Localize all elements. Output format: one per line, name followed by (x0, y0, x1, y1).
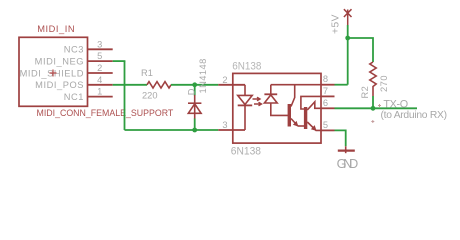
opto pin 8 stub (321, 84, 335, 86)
transistor Q2 collector (307, 102, 321, 110)
svg-text:6N138: 6N138 (232, 61, 261, 73)
svg-text:R2: R2 (360, 86, 370, 99)
wire diode top lead (194, 85, 196, 96)
wire Q1 emitter to Q2 base (298, 125, 304, 127)
light arrow 1 (253, 97, 261, 101)
transistor Q1 collector (291, 85, 295, 107)
svg-text:NC3: NC3 (64, 45, 84, 55)
wire bottom rail to opto pin3 (125, 129, 219, 131)
transistor Q1 base bar (288, 104, 291, 127)
opto LED triangle (238, 95, 253, 104)
wire R1 to opto pin2 (171, 84, 218, 86)
opto LED anode lead (244, 85, 246, 96)
wire MIDI_NEG vertical (124, 61, 126, 130)
svg-text:GND: GND (337, 156, 359, 171)
note origin tick (371, 120, 374, 123)
pin NC3 stub (88, 48, 113, 50)
opto LED cathode lead (244, 105, 246, 131)
wire R2 bottom (372, 96, 374, 108)
svg-text:MIDI_NEG: MIDI_NEG (35, 56, 84, 66)
svg-text:7: 7 (323, 86, 328, 96)
transistor Q1 emitter arrowhead (294, 122, 298, 126)
node junction diode top (192, 82, 197, 87)
wire MIDI_NEG horizontal (113, 60, 126, 62)
transistor Q2 emitter (307, 122, 321, 130)
opto pin 2 stub (218, 84, 245, 86)
resistor R2 zigzag (370, 62, 376, 96)
opto pin 3 stub (218, 129, 245, 131)
svg-text:1: 1 (97, 87, 102, 97)
transistor Q1 emitter (291, 119, 298, 127)
transistor Q2 base bar (304, 107, 307, 129)
pin MIDI_NEG stub (88, 60, 113, 62)
opto 6N138 box (233, 73, 321, 143)
svg-text:2: 2 (222, 75, 227, 85)
photodiode triangle (264, 95, 277, 103)
svg-text:R1: R1 (141, 68, 153, 78)
resistor R1 zigzag (147, 82, 171, 88)
pin MIDI_SHIELD stub (88, 72, 113, 74)
svg-text:(to Arduino RX): (to Arduino RX) (381, 110, 448, 121)
node junction diode bottom (192, 128, 197, 133)
opto pin 6 stub (321, 107, 335, 109)
svg-text:MIDI_POS: MIDI_POS (35, 80, 84, 90)
wire pin8 to +5V (335, 84, 348, 86)
svg-text:4: 4 (97, 75, 102, 85)
opto pin 5 stub (321, 129, 335, 131)
node junction R2/TX-O (371, 106, 376, 111)
transistor Q2 emitter arrowhead (312, 126, 316, 130)
svg-text:1N4148: 1N4148 (198, 58, 208, 93)
svg-text:+5V: +5V (331, 14, 342, 34)
pin MIDI_POS stub (88, 84, 113, 86)
wire MIDI_POS to R1 (113, 84, 147, 86)
internal pin7 line (301, 96, 321, 109)
svg-text:8: 8 (323, 74, 328, 84)
svg-text:2: 2 (97, 63, 102, 73)
wire diode bottom lead (194, 119, 196, 131)
connector J1 MIDI_IN box (19, 37, 88, 106)
svg-text:NC1: NC1 (64, 92, 84, 102)
photodiode cathode bar (264, 93, 277, 95)
opto pin 7 stub (321, 95, 335, 97)
svg-text:MIDI_CONN_FEMALE_SUPPORT: MIDI_CONN_FEMALE_SUPPORT (37, 108, 174, 118)
svg-text:3: 3 (222, 120, 227, 130)
ground symbol (338, 146, 355, 153)
supply +5V symbol (344, 9, 352, 25)
svg-text:5: 5 (323, 120, 328, 130)
wire TX-O (335, 107, 418, 109)
svg-text:220: 220 (142, 91, 158, 101)
svg-text:5: 5 (97, 51, 102, 61)
part origin cross (50, 70, 57, 77)
opto LED cathode bar (238, 104, 253, 106)
node junction +5V (345, 36, 350, 41)
svg-text:6: 6 (323, 98, 328, 108)
svg-text:MIDI_IN: MIDI_IN (37, 24, 75, 34)
photodiode cathode lead (270, 85, 272, 95)
svg-text:6N138: 6N138 (231, 146, 261, 158)
diode D1 symbol (188, 95, 201, 119)
light arrow 2 (254, 102, 262, 106)
wire +5V down (347, 25, 349, 85)
wire +5V to R2 top (348, 38, 373, 62)
svg-text:3: 3 (97, 39, 102, 49)
svg-text:270: 270 (379, 75, 389, 92)
wire pin5 to GND (335, 130, 346, 146)
label origin tick TX-O (378, 104, 381, 107)
photodiode anode lead (271, 103, 288, 115)
internal VCC rail (271, 84, 321, 86)
svg-text:D: D (187, 88, 197, 95)
svg-text:TX-O: TX-O (383, 98, 408, 110)
pin NC1 stub (88, 96, 113, 98)
